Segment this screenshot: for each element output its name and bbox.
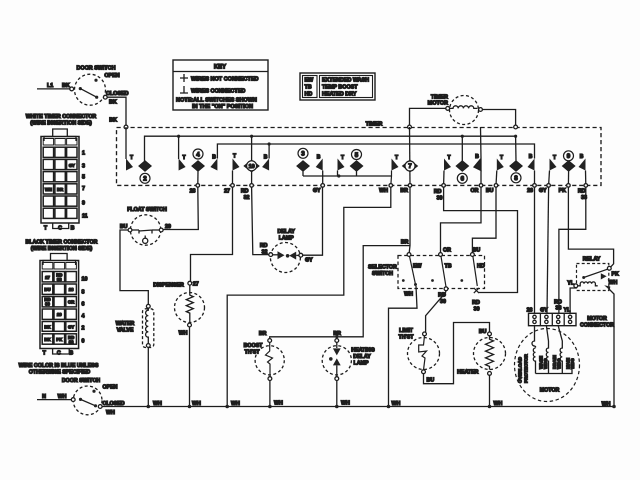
svg-text:T: T: [130, 155, 133, 161]
svg-text:GY: GY: [313, 188, 321, 194]
winding common bar: [536, 370, 573, 374]
EW/TB/HD legend box: [300, 73, 375, 100]
svg-text:GY: GY: [69, 163, 75, 168]
svg-text:B: B: [71, 226, 75, 232]
svg-text:0: 0: [82, 338, 85, 344]
heating delay lamp: [322, 331, 375, 406]
svg-text:WDG: WDG: [557, 358, 562, 369]
wire timer motor right to contact 8 / bus: [482, 110, 515, 126]
svg-text:3: 3: [82, 164, 85, 170]
svg-text:WIRES NOT CONNECTED: WIRES NOT CONNECTED: [191, 76, 259, 82]
svg-text:B: B: [475, 154, 479, 160]
svg-text:WH: WH: [494, 401, 503, 407]
svg-text:B: B: [529, 154, 533, 160]
svg-text:EW: EW: [413, 263, 422, 269]
svg-text:WIRES CONNECTED: WIRES CONNECTED: [191, 88, 245, 94]
wire WH timer to bus: [227, 187, 391, 406]
svg-text:7: 7: [408, 163, 412, 170]
svg-text:GY: GY: [539, 188, 547, 194]
svg-text:RELAY: RELAY: [583, 257, 601, 263]
svg-text:7: 7: [82, 186, 85, 192]
svg-text:WH: WH: [609, 280, 618, 286]
wire GY timer to motor connector: [547, 187, 549, 313]
svg-text:HD: HD: [477, 263, 485, 269]
svg-text:LIMIT: LIMIT: [399, 328, 414, 334]
svg-text:T: T: [395, 155, 398, 161]
svg-text:PK: PK: [612, 272, 620, 278]
svg-text:29: 29: [57, 312, 62, 317]
svg-text:TIMER: TIMER: [366, 122, 383, 128]
svg-text:C: C: [58, 226, 62, 232]
svg-text:WH: WH: [392, 401, 401, 407]
svg-text:OPEN: OPEN: [102, 385, 117, 391]
door switch S1 (line side, top): [37, 66, 129, 126]
svg-text:PK: PK: [56, 337, 63, 342]
svg-text:33: 33: [57, 277, 62, 282]
svg-text:TEMP BOOST: TEMP BOOST: [322, 85, 358, 91]
wire float switch left to water valve: [120, 230, 148, 304]
svg-text:T: T: [43, 351, 47, 357]
svg-text:(WIRE INSERTION SIDE): (WIRE INSERTION SIDE): [31, 246, 93, 252]
timer terminal circles on bottom border: [196, 184, 588, 188]
svg-text:SWITCH: SWITCH: [372, 271, 393, 277]
svg-text:B: B: [69, 351, 73, 357]
wire water valve to bus: [147, 347, 149, 406]
wire delay lamp to GY timer terminal: [303, 187, 323, 255]
svg-text:5: 5: [355, 152, 359, 159]
svg-text:IN THE "ON" POSITION: IN THE "ON" POSITION: [192, 104, 253, 110]
svg-text:BU: BU: [479, 329, 487, 335]
wire bus1: [145, 136, 516, 161]
svg-text:BU: BU: [427, 377, 435, 383]
svg-text:RD: RD: [260, 243, 268, 249]
svg-text:OTHERWISE SPECIFIED: OTHERWISE SPECIFIED: [29, 369, 91, 375]
timer contact 8: [496, 136, 535, 185]
svg-text:9: 9: [567, 153, 571, 160]
svg-text:6: 6: [82, 301, 85, 307]
wire limit thst to heater (BU): [424, 323, 490, 384]
svg-text:OR: OR: [471, 188, 479, 194]
wire L1 to door switch: [37, 88, 70, 90]
wire heater to bus: [489, 375, 491, 406]
svg-text:BOOST: BOOST: [244, 343, 264, 349]
svg-text:30: 30: [474, 306, 480, 312]
timer motor M1: [410, 95, 516, 126]
svg-text:T: T: [233, 154, 236, 160]
svg-text:10: 10: [82, 276, 88, 282]
timer contact 6: [444, 127, 481, 185]
svg-text:32: 32: [244, 195, 250, 201]
svg-text:11: 11: [82, 214, 88, 220]
svg-text:30: 30: [437, 195, 443, 201]
timer contact 5: [303, 150, 399, 186]
svg-text:MOTOR: MOTOR: [428, 101, 448, 107]
motor: [515, 326, 580, 402]
relay: [567, 257, 619, 407]
svg-text:HEATER: HEATER: [457, 370, 479, 376]
svg-text:WH: WH: [106, 410, 115, 416]
timer terminal wire labels: [190, 188, 587, 201]
svg-text:T: T: [448, 155, 451, 161]
wire PK timer to relay: [568, 187, 613, 267]
svg-text:32: 32: [69, 339, 74, 344]
svg-text:8: 8: [82, 289, 85, 295]
svg-text:28: 28: [190, 189, 196, 195]
svg-text:FLOAT SWITCH: FLOAT SWITCH: [127, 207, 167, 213]
wire color note: [19, 363, 99, 376]
timer dashed enclosure: [117, 122, 602, 186]
svg-text:BU: BU: [120, 224, 128, 230]
wire heating delay lamp to bus: [336, 381, 338, 407]
neutral bus wire WH: [102, 401, 616, 409]
svg-text:GY: GY: [305, 258, 313, 264]
svg-text:PK: PK: [559, 188, 567, 194]
svg-text:B: B: [317, 155, 321, 161]
wire door switch to timer (BK): [107, 97, 126, 125]
svg-text:CONNECTOR: CONNECTOR: [580, 323, 614, 329]
svg-text:27: 27: [45, 275, 50, 280]
svg-text:WHITE TIMER CONNECTOR: WHITE TIMER CONNECTOR: [26, 114, 97, 120]
svg-text:BR: BR: [333, 331, 341, 337]
svg-text:BR: BR: [57, 187, 64, 192]
wire TB bottom to limit thermostat: [426, 291, 446, 332]
timer contact 7: [402, 127, 417, 185]
delay lamp: [252, 187, 323, 272]
timer contact 3: [297, 148, 323, 185]
svg-text:T: T: [183, 155, 186, 161]
svg-text:3: 3: [301, 151, 305, 158]
svg-text:WH: WH: [179, 330, 188, 336]
wire dispenser to bus: [189, 327, 191, 407]
svg-text:DELAY: DELAY: [277, 229, 295, 235]
svg-text:HD: HD: [305, 92, 313, 98]
svg-text:WATER: WATER: [116, 321, 135, 327]
svg-text:CLOSED: CLOSED: [106, 91, 129, 97]
svg-text:BR: BR: [401, 240, 409, 246]
svg-text:5: 5: [82, 175, 85, 181]
svg-text:KEY: KEY: [214, 65, 226, 71]
svg-text:2: 2: [143, 176, 147, 183]
wire timer motor left to contact 7: [410, 108, 446, 125]
svg-text:BK: BK: [44, 324, 51, 329]
wire 26 timer to motor connector: [534, 187, 536, 313]
main winding: [558, 326, 562, 374]
svg-text:WH: WH: [404, 291, 413, 297]
svg-text:HEATED DRY: HEATED DRY: [322, 92, 357, 98]
svg-text:LAMP: LAMP: [279, 236, 294, 242]
svg-text:EW: EW: [305, 78, 315, 84]
svg-text:(WIRE INSERTION SIDE): (WIRE INSERTION SIDE): [30, 120, 92, 126]
svg-text:B: B: [264, 155, 268, 161]
svg-text:BK: BK: [62, 83, 70, 89]
motor connector: [529, 288, 615, 329]
svg-text:RD: RD: [554, 299, 562, 305]
svg-text:RD: RD: [578, 189, 586, 195]
svg-text:PROTECTOR: PROTECTOR: [524, 354, 529, 383]
svg-text:VALVE: VALVE: [117, 327, 134, 333]
svg-text:8: 8: [514, 175, 518, 182]
timer contact 10: [233, 136, 270, 185]
svg-text:RD: RD: [241, 189, 249, 195]
svg-text:1: 1: [82, 151, 85, 157]
timer internal bus wires: [145, 135, 535, 161]
svg-text:GY: GY: [68, 324, 74, 329]
svg-text:B: B: [212, 155, 216, 161]
svg-text:WH: WH: [274, 401, 283, 407]
svg-text:BR: BR: [259, 331, 267, 337]
svg-text:B: B: [580, 154, 584, 160]
svg-text:BR: BR: [400, 188, 408, 194]
svg-text:27: 27: [224, 189, 230, 195]
svg-text:L1: L1: [47, 83, 53, 89]
wire YL pin to relay: [570, 288, 576, 314]
svg-text:NOTE:ALL SWITCHES SHOWN: NOTE:ALL SWITCHES SHOWN: [176, 97, 257, 103]
svg-text:WH: WH: [231, 401, 240, 407]
wire RD32 timer to delay lamp: [252, 187, 269, 254]
svg-text:LAMP: LAMP: [353, 361, 368, 367]
svg-text:6: 6: [461, 176, 465, 183]
wire BU timer to HD: [472, 187, 496, 252]
wire EW bottom (WH) to bus: [389, 286, 418, 407]
svg-text:4: 4: [82, 313, 85, 319]
svg-text:WH: WH: [341, 401, 350, 407]
svg-text:RD: RD: [472, 300, 480, 306]
boost thermostat: [244, 331, 285, 406]
svg-text:MOTOR: MOTOR: [587, 316, 607, 322]
svg-text:BK: BK: [109, 99, 117, 105]
svg-text:TB: TB: [445, 263, 452, 269]
svg-text:TH'ST: TH'ST: [398, 334, 414, 340]
svg-text:T: T: [500, 155, 503, 161]
door switch S2 (neutral side, bottom): [37, 378, 125, 416]
svg-text:BK: BK: [44, 337, 51, 342]
white timer connector J1: [26, 114, 97, 232]
svg-text:WH: WH: [45, 187, 52, 192]
black timer connector J2: [26, 240, 98, 357]
svg-text:T: T: [341, 155, 344, 161]
svg-text:SELECTOR: SELECTOR: [368, 264, 397, 270]
selector switch: [368, 248, 485, 313]
svg-text:MOTOR: MOTOR: [540, 387, 560, 393]
svg-text:RD: RD: [434, 189, 442, 195]
overload protector + wash winding: [532, 326, 536, 348]
svg-text:27: 27: [193, 281, 199, 287]
svg-text:BU: BU: [486, 188, 494, 194]
svg-text:C: C: [57, 351, 61, 357]
svg-text:OVERLOAD: OVERLOAD: [518, 356, 523, 383]
wire RD33 timer to motor connector: [559, 187, 586, 313]
svg-text:2: 2: [82, 325, 85, 331]
svg-text:TB: TB: [305, 85, 312, 91]
wire relay WH to bus: [610, 290, 615, 407]
svg-text:BK: BK: [109, 118, 117, 124]
door switch dashed body: [75, 74, 106, 105]
svg-text:BU: BU: [44, 287, 50, 292]
limit thermostat: [398, 323, 489, 384]
svg-text:WH: WH: [602, 401, 611, 407]
svg-text:4: 4: [196, 151, 200, 158]
svg-text:T: T: [553, 155, 556, 161]
dispenser: [153, 187, 232, 406]
svg-text:WH: WH: [153, 401, 162, 407]
heater: [457, 332, 505, 407]
svg-text:9: 9: [82, 201, 85, 207]
svg-text:28: 28: [69, 287, 74, 292]
svg-text:30: 30: [45, 302, 50, 307]
wire 27 from timer to dispenser: [191, 187, 233, 281]
wire BR from timer to selector switch: [270, 187, 410, 338]
svg-text:WIRE COLOR IS BLUE UNLESS: WIRE COLOR IS BLUE UNLESS: [19, 363, 99, 369]
water valve solenoid: [116, 304, 154, 406]
timer contact 2: [126, 127, 151, 183]
svg-text:EXTENDED WASH: EXTENDED WASH: [322, 78, 369, 84]
svg-text:30: 30: [440, 299, 446, 305]
svg-text:10: 10: [249, 164, 255, 170]
EW contact: [407, 253, 411, 257]
wire bus2: [217, 144, 534, 159]
timer contact 4: [179, 136, 218, 185]
wire boost to bus: [269, 381, 271, 407]
svg-text:OPEN: OPEN: [104, 73, 119, 79]
svg-text:WH: WH: [379, 188, 388, 194]
svg-text:OR: OR: [68, 300, 75, 305]
svg-text:33: 33: [556, 306, 562, 312]
svg-text:DELAY: DELAY: [353, 354, 371, 360]
svg-text:DOOR SWITCH: DOOR SWITCH: [62, 378, 100, 384]
svg-text:26: 26: [527, 188, 533, 194]
svg-text:DISPENSER: DISPENSER: [153, 283, 184, 289]
drain winding: [546, 326, 548, 374]
svg-text:BLACK TIMER CONNECTOR: BLACK TIMER CONNECTOR: [26, 240, 98, 246]
svg-text:T: T: [44, 226, 48, 232]
wire RD30 timer to HD bottom: [444, 187, 518, 292]
svg-text:WDG: WDG: [570, 358, 575, 369]
KEY legend box: [173, 60, 268, 110]
float switch: [120, 187, 198, 304]
svg-text:OR: OR: [443, 248, 451, 254]
svg-text:HEATING: HEATING: [351, 348, 374, 354]
wire 28 from timer to float switch right: [163, 187, 198, 229]
link wire below contacts 3-5: [303, 171, 392, 186]
wire OR timer to TB: [441, 187, 482, 252]
svg-text:DOOR SWITCH: DOOR SWITCH: [77, 66, 116, 72]
timer contact 9: [549, 151, 586, 186]
wire BR branch to boost/heating lamp: [270, 246, 410, 339]
svg-text:WH: WH: [192, 401, 201, 407]
